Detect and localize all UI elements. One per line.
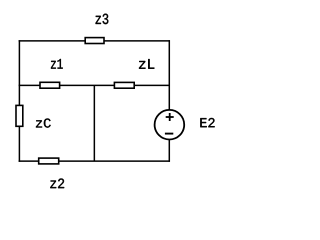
wire right vertical lower (168, 140, 170, 162)
plus sign of E2 (166, 113, 174, 121)
label Z3 (96, 14, 109, 24)
label E2 (200, 118, 214, 127)
minus sign of E2 (165, 133, 173, 135)
label ZL (139, 59, 154, 69)
wire middle horizontal (19, 84, 170, 86)
label Z1 (51, 59, 63, 69)
voltage source E2 (155, 110, 185, 140)
label Z2 (50, 179, 64, 189)
label ZC (36, 119, 51, 128)
resistor Z2 (39, 158, 59, 164)
wire top: left node to right node (19, 40, 170, 42)
wire left vertical (18, 40, 20, 162)
capacitor ZC (16, 105, 23, 126)
wire middle vertical (93, 85, 95, 161)
wire bottom (19, 160, 170, 162)
resistor ZL (114, 82, 134, 88)
resistor Z1 (40, 82, 60, 88)
wire right vertical upper (168, 40, 170, 110)
resistor Z3 (85, 38, 104, 44)
